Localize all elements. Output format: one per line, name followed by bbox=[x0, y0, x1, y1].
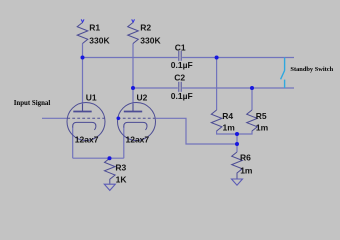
node junction dot R6 top tap bbox=[235, 142, 239, 146]
svg-text:330K: 330K bbox=[89, 35, 110, 45]
node junction dot R3 tap bbox=[108, 156, 112, 160]
node junction dot rail4/R6 bbox=[235, 132, 239, 136]
svg-text:U1: U1 bbox=[86, 92, 97, 102]
wire column A R1-to-U1 plate bbox=[82, 44, 84, 112]
svg-text:R6: R6 bbox=[240, 153, 251, 163]
wire R5 top lead bbox=[251, 88, 253, 110]
power arrow V2 (R2 top) bbox=[132, 19, 135, 22]
node junction dot R4 top bbox=[215, 56, 219, 60]
power arrow V1 (R1 top) bbox=[81, 19, 84, 22]
resistor R3 bbox=[105, 158, 116, 184]
svg-text:C2: C2 bbox=[174, 73, 185, 83]
svg-text:Standby Switch: Standby Switch bbox=[290, 66, 333, 73]
ground (below R3) bbox=[104, 184, 115, 190]
svg-text:330K: 330K bbox=[140, 35, 161, 45]
resistor R4 bbox=[211, 110, 222, 131]
svg-text:1K: 1K bbox=[116, 175, 128, 185]
ground (below R6) bbox=[232, 179, 243, 185]
svg-text:Input Signal: Input Signal bbox=[14, 100, 51, 107]
svg-text:R4: R4 bbox=[222, 111, 233, 121]
wire U1 cathode lead bbox=[72, 127, 74, 159]
op-amp U2 triode tube bbox=[118, 103, 156, 141]
svg-text:0.1µF: 0.1µF bbox=[171, 91, 193, 101]
node U2 grid pin dot bbox=[117, 117, 121, 121]
node junction dot R5 top bbox=[250, 86, 254, 90]
resistor R2 bbox=[128, 23, 139, 44]
svg-text:R3: R3 bbox=[115, 163, 126, 173]
svg-text:12ax7: 12ax7 bbox=[75, 135, 99, 145]
wire rail4 R4/R5 bottoms bbox=[217, 131, 252, 134]
resistor R1 bbox=[77, 23, 88, 44]
svg-text:R2: R2 bbox=[140, 23, 151, 33]
wire R4 top lead bbox=[216, 58, 218, 111]
wire R6 top lead bbox=[236, 134, 238, 152]
wire rail1 top (left of C1) bbox=[83, 57, 178, 59]
resistor R5 bbox=[247, 110, 258, 131]
svg-text:R1: R1 bbox=[89, 23, 100, 33]
wire U2 grid to right bbox=[156, 118, 237, 144]
op-amp U1 triode tube bbox=[67, 103, 105, 141]
svg-text:R5: R5 bbox=[256, 111, 267, 121]
wire U2 cathode lead bbox=[123, 127, 125, 159]
switch S1 standby bbox=[281, 58, 285, 89]
svg-text:U2: U2 bbox=[137, 92, 148, 102]
wire rail1 top (right of C1) bbox=[182, 57, 294, 59]
svg-text:1m: 1m bbox=[240, 166, 253, 176]
node junction dot A (R1/U1 plate) bbox=[81, 56, 85, 60]
svg-text:12ax7: 12ax7 bbox=[126, 135, 150, 145]
node junction dot B (R2/U2 plate rail2) bbox=[131, 86, 135, 90]
wire rail2 (left of C2) bbox=[133, 87, 178, 89]
svg-text:0.1µF: 0.1µF bbox=[171, 60, 193, 70]
wire input signal bbox=[42, 117, 67, 119]
capacitor C2 bbox=[179, 82, 181, 92]
svg-text:C1: C1 bbox=[175, 42, 186, 52]
resistor R6 bbox=[232, 152, 243, 179]
wire column B R2-to-U2 plate bbox=[132, 44, 134, 112]
svg-text:1m: 1m bbox=[223, 122, 236, 132]
capacitor C1 bbox=[179, 51, 181, 61]
wire rail2 (right of C2) bbox=[182, 87, 294, 89]
wire cathode rail3 bbox=[73, 157, 124, 159]
svg-text:1m: 1m bbox=[256, 122, 269, 132]
